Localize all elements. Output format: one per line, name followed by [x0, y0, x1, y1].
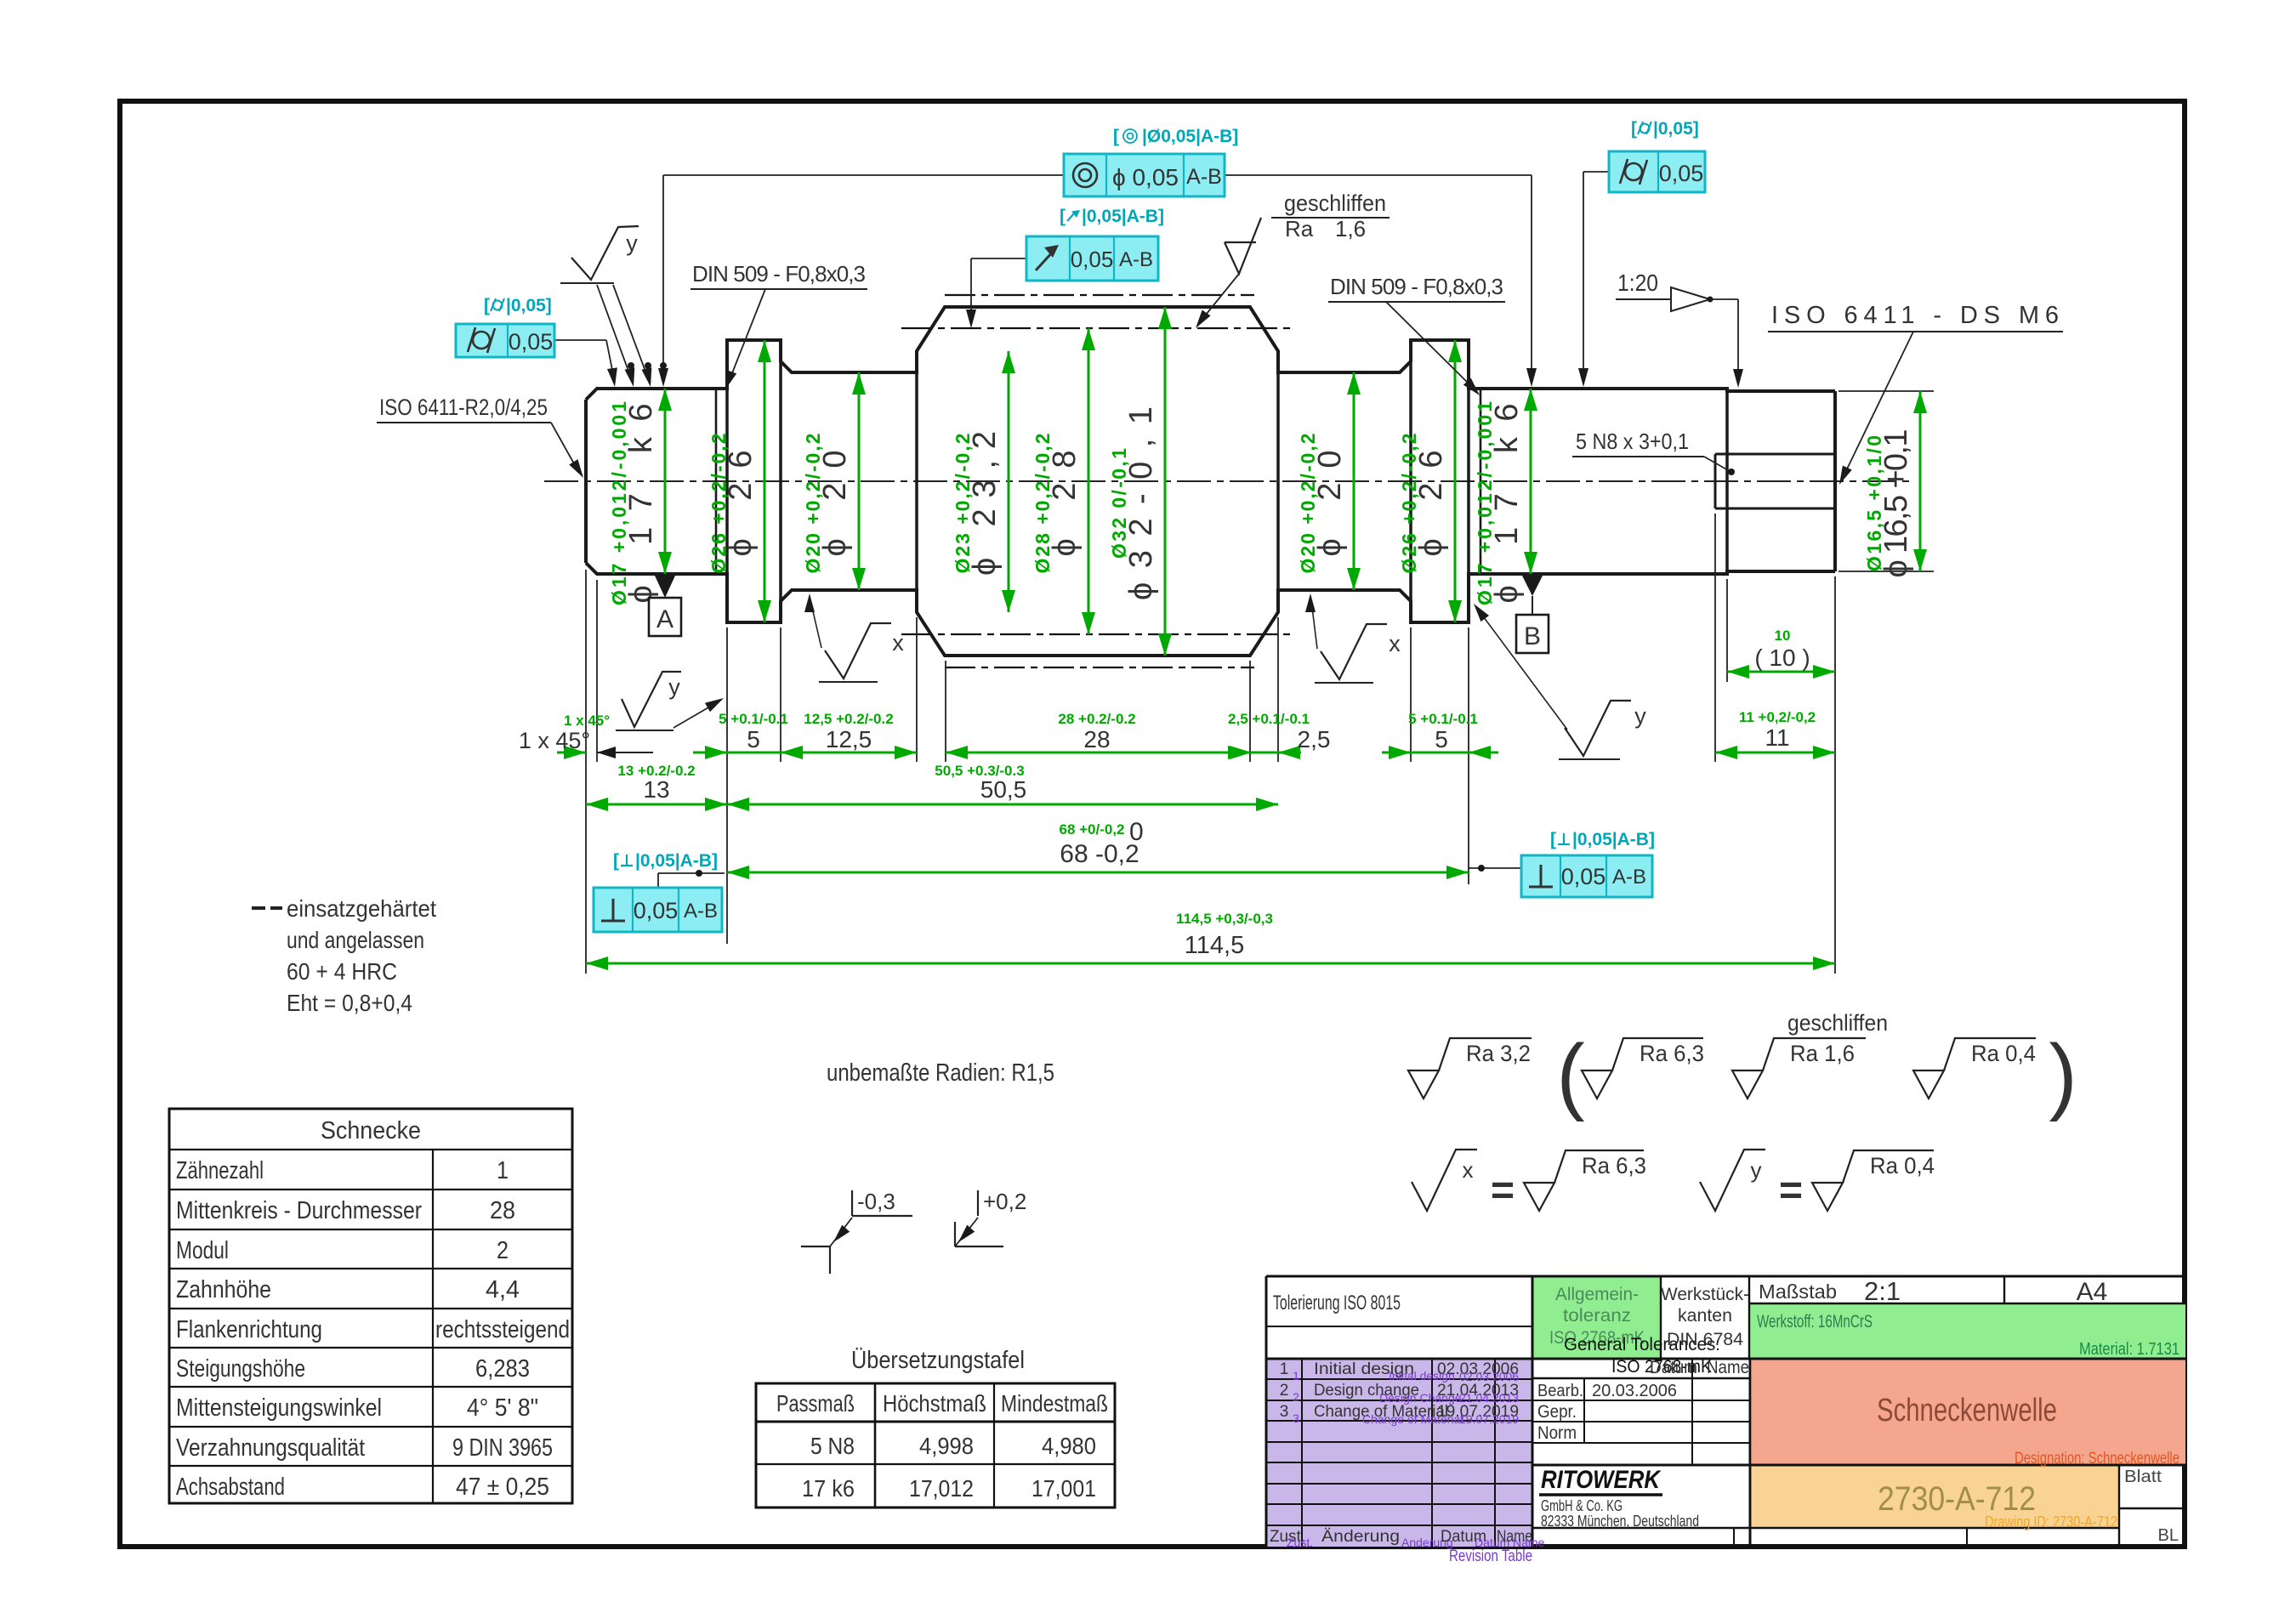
svg-text:114,5 +0,3/-0,3: 114,5 +0,3/-0,3	[1176, 911, 1273, 927]
svg-text:toleranz: toleranz	[1563, 1306, 1631, 1326]
right FCF leader	[1583, 171, 1609, 173]
diameter dimension O26 right collar	[1454, 340, 1457, 622]
svg-text:Mittenkreis - Durchmesser: Mittenkreis - Durchmesser	[176, 1197, 422, 1224]
svg-text:Norm: Norm	[1537, 1423, 1577, 1443]
svg-text:Ra: Ra	[1285, 216, 1314, 241]
svg-text:|0,05]: |0,05]	[506, 296, 552, 315]
svg-text:12,5 +0.2/-0.2: 12,5 +0.2/-0.2	[804, 711, 893, 727]
svg-text:4° 5' 8": 4° 5' 8"	[467, 1394, 538, 1422]
note einsatzgehaertet dashes	[252, 906, 265, 910]
svg-text:1:20: 1:20	[1617, 270, 1658, 296]
svg-text:5 N8: 5 N8	[810, 1433, 855, 1459]
dim 11	[1715, 752, 1835, 754]
x equals Ra 6,3	[1524, 1183, 1554, 1211]
dim (10) thread depth	[1727, 671, 1835, 673]
extension line chamfer x702	[596, 580, 598, 762]
svg-text:28: 28	[490, 1197, 515, 1224]
dim 12.5	[781, 752, 917, 754]
title block green cell Allgemeintoleranz	[1533, 1276, 1661, 1359]
svg-text:A-B: A-B	[684, 900, 718, 923]
svg-text:Ra 0,4: Ra 0,4	[1971, 1041, 2036, 1066]
svg-text:|0,05|A-B]: |0,05|A-B]	[1082, 207, 1164, 226]
keyway left end	[1714, 454, 1717, 508]
svg-text:2,5: 2,5	[1298, 726, 1331, 752]
svg-text:12,5: 12,5	[826, 726, 872, 752]
svg-text:20.03.2006: 20.03.2006	[1592, 1382, 1677, 1400]
svg-text:Ø28 +0,2/-0,2: Ø28 +0,2/-0,2	[1031, 434, 1054, 574]
runout leader line A-B	[663, 174, 1532, 176]
svg-text:10: 10	[1775, 627, 1791, 644]
svg-text:5 N8 x 3+0,1: 5 N8 x 3+0,1	[1576, 429, 1689, 454]
svg-text:BL: BL	[2158, 1526, 2179, 1545]
FCF circular runout right journal	[1609, 151, 1705, 192]
surface y leader arrows top left	[597, 285, 633, 383]
svg-text:17,012: 17,012	[909, 1475, 974, 1502]
title block green band Werkstoff	[1749, 1303, 2185, 1359]
extension line x1727	[1468, 627, 1469, 884]
svg-text:y: y	[1751, 1157, 1762, 1183]
svg-text:Werkstück-: Werkstück-	[1661, 1285, 1749, 1304]
svg-text:Ø32 0/-0,1: Ø32 0/-0,1	[1108, 448, 1130, 559]
svg-text:Allgemein-: Allgemein-	[1555, 1285, 1639, 1304]
surface symbol y left lower	[616, 730, 673, 731]
Ra 3,2 symbol	[1408, 1070, 1439, 1099]
svg-text:Mittensteigungswinkel: Mittensteigungswinkel	[176, 1394, 382, 1422]
keyway top line	[1715, 453, 1835, 456]
svg-text:[: [	[1550, 830, 1556, 849]
shaft left end face	[584, 400, 588, 563]
svg-text:Ø20 +0,2/-0,2: Ø20 +0,2/-0,2	[1297, 434, 1319, 574]
extension line x855	[726, 627, 728, 944]
svg-text:4,998: 4,998	[919, 1433, 974, 1459]
diameter dimension O23.2 worm root	[1008, 351, 1010, 612]
svg-text:19.07.2019: 19.07.2019	[1459, 1412, 1519, 1426]
svg-text:Ø23 +0,2/-0,2: Ø23 +0,2/-0,2	[952, 434, 974, 574]
svg-text:2: 2	[1280, 1382, 1289, 1400]
diameter dimension O17 left	[664, 389, 667, 574]
svg-text:Achsabstand: Achsabstand	[176, 1474, 285, 1501]
extension line x2158	[1834, 576, 1836, 974]
svg-text:1: 1	[1293, 1369, 1299, 1383]
svg-text:|0,05]: |0,05]	[1653, 119, 1699, 139]
svg-text:Ø16,5 +0,1/0: Ø16,5 +0,1/0	[1863, 435, 1885, 571]
Ra 6,3 symbol	[1582, 1070, 1612, 1099]
svg-text:|0,05|A-B]: |0,05|A-B]	[1572, 830, 1655, 849]
diameter dimension O17 right	[1530, 389, 1532, 574]
svg-text:Schneckenwelle: Schneckenwelle	[1877, 1393, 2057, 1428]
svg-text:1 x 45°: 1 x 45°	[564, 713, 610, 729]
svg-text:0,05: 0,05	[634, 898, 679, 923]
svg-text:[: [	[613, 851, 619, 871]
DIN509 relief line left journal	[715, 389, 718, 574]
worm lower aux dash-dot line	[945, 667, 1254, 668]
svg-text:Revision Table: Revision Table	[1449, 1547, 1532, 1565]
svg-text:geschliffen: geschliffen	[1787, 1010, 1888, 1036]
datum B symbol	[1522, 576, 1543, 596]
svg-text:5 +0.1/-0.1: 5 +0.1/-0.1	[1408, 711, 1478, 727]
svg-text:Übersetzungstafel: Übersetzungstafel	[851, 1347, 1025, 1374]
svg-text:Ra 1,6: Ra 1,6	[1790, 1041, 1855, 1066]
extension line x1503	[1277, 617, 1279, 762]
svg-text:|0,05|A-B]: |0,05|A-B]	[635, 851, 718, 871]
left FCF leader	[554, 339, 606, 341]
FCF circular runout left journal	[456, 324, 554, 357]
svg-text:Werkstoff: 16MnCrS: Werkstoff: 16MnCrS	[1757, 1312, 1873, 1332]
worm upper aux dash-dot line	[945, 294, 1254, 296]
diameter dimension O16.5 end	[1919, 391, 1922, 571]
svg-text:Ra 3,2: Ra 3,2	[1466, 1041, 1531, 1066]
svg-text:Gepr.: Gepr.	[1537, 1402, 1577, 1422]
svg-text:Zust.: Zust.	[1287, 1536, 1313, 1549]
svg-text:[: [	[484, 296, 490, 315]
svg-text:Maßstab: Maßstab	[1759, 1280, 1837, 1303]
svg-text:Mindestmaß: Mindestmaß	[1001, 1390, 1108, 1417]
title block orange box	[1752, 1465, 2119, 1528]
svg-text:GmbH & Co. KG: GmbH & Co. KG	[1541, 1497, 1623, 1514]
svg-text:-0,3: -0,3	[857, 1189, 895, 1214]
svg-text:Datum: Datum	[1650, 1358, 1697, 1377]
diameter dimension O32 worm OD	[1164, 307, 1167, 656]
surface symbol y right lower	[1559, 758, 1620, 760]
svg-text:11 +0,2/-0,2: 11 +0,2/-0,2	[1739, 709, 1816, 725]
svg-text:RITOWERK: RITOWERK	[1541, 1466, 1662, 1494]
svg-text:0,05: 0,05	[1071, 247, 1114, 272]
svg-text:1: 1	[497, 1157, 509, 1184]
svg-text:einsatzgehärtet: einsatzgehärtet	[287, 895, 436, 922]
svg-text:rechtssteigend: rechtssteigend	[435, 1316, 570, 1343]
extension line x1659	[1410, 627, 1412, 762]
svg-text:y: y	[1634, 703, 1646, 729]
svg-text:Ø17 +0,012/-0,001: Ø17 +0,012/-0,001	[1474, 401, 1496, 605]
dim 5 left collar	[693, 752, 815, 754]
worm right face	[1276, 351, 1280, 612]
svg-text:5: 5	[747, 726, 760, 752]
revision table purple overlay	[1266, 1359, 1532, 1547]
chamfer dim 1x45 line	[557, 752, 586, 754]
svg-text:0,05: 0,05	[509, 329, 554, 355]
svg-text:ϕ 0,05: ϕ 0,05	[1112, 164, 1179, 190]
svg-text:68 +0/-0,2: 68 +0/-0,2	[1059, 821, 1124, 838]
revision table grid	[1266, 1378, 1532, 1380]
x equals symbol	[1412, 1150, 1477, 1211]
diameter dimension O28 worm pitch	[1088, 328, 1090, 634]
svg-text:DIN 509 - F0,8x0,3: DIN 509 - F0,8x0,3	[692, 261, 866, 287]
worm pitch line top (O28)	[901, 327, 1293, 329]
svg-text:47 ± 0,25: 47 ± 0,25	[456, 1474, 549, 1501]
svg-text:unbemaßte Radien: R1,5: unbemaßte Radien: R1,5	[827, 1059, 1054, 1087]
edge symbol +0,2	[955, 1246, 1003, 1247]
svg-text:1 x 45°: 1 x 45°	[519, 728, 590, 753]
svg-text:Zähnezahl: Zähnezahl	[176, 1157, 264, 1184]
runout leader left vertical	[662, 175, 664, 381]
svg-text:Eht = 0,8+0,4: Eht = 0,8+0,4	[287, 990, 412, 1016]
svg-text:geschliffen: geschliffen	[1284, 190, 1386, 216]
DIN509 relief line right journal	[1480, 389, 1482, 574]
surface symbol x right	[1315, 682, 1373, 684]
svg-text:2: 2	[497, 1237, 509, 1264]
diameter dimension O26 left collar	[764, 340, 766, 622]
right collar left face	[1409, 340, 1412, 622]
svg-text:60 + 4 HRC: 60 + 4 HRC	[287, 958, 397, 985]
dim 13	[586, 803, 727, 806]
svg-text:Material: 1.7131: Material: 1.7131	[2079, 1340, 2179, 1359]
svg-text:Bearb.: Bearb.	[1537, 1382, 1583, 1400]
Ra 0,4 symbol	[1913, 1070, 1944, 1099]
svg-text:A: A	[656, 605, 673, 633]
svg-text:Ra 6,3: Ra 6,3	[1582, 1153, 1646, 1178]
svg-text:114,5: 114,5	[1185, 932, 1244, 959]
svg-text:5: 5	[1435, 726, 1448, 752]
svg-text:Ø26 +0,2/-0,2: Ø26 +0,2/-0,2	[1398, 434, 1420, 574]
svg-text:1: 1	[1280, 1360, 1289, 1378]
datum A symbol	[655, 576, 675, 598]
svg-text:Drawing ID: 2730-A-712: Drawing ID: 2730-A-712	[1985, 1513, 2117, 1530]
svg-text:=: =	[1491, 1168, 1515, 1213]
svg-text:2,5 +0.1/-0.1: 2,5 +0.1/-0.1	[1228, 711, 1310, 727]
svg-text:3: 3	[1280, 1403, 1289, 1421]
extension lines O16.5 dim	[1839, 390, 1934, 392]
dim 28 worm	[946, 752, 1250, 754]
svg-text:Ø26 +0,2/-0,2: Ø26 +0,2/-0,2	[708, 434, 730, 574]
svg-text:[: [	[1113, 127, 1119, 146]
svg-text:50,5: 50,5	[980, 776, 1027, 803]
diameter dimension O20 right	[1353, 372, 1355, 590]
Uebersetzungstafel grid	[756, 1383, 1115, 1508]
svg-text:0,05: 0,05	[1659, 161, 1704, 186]
edge symbol -0,3	[801, 1246, 830, 1247]
svg-text:Ra 6,3: Ra 6,3	[1640, 1041, 1704, 1066]
shaft centerline	[544, 480, 1915, 482]
svg-text:+0,2: +0,2	[983, 1189, 1026, 1214]
left collar left face	[725, 340, 729, 622]
svg-text:0: 0	[1129, 818, 1144, 846]
dim 68	[727, 872, 1469, 874]
svg-text:Ra 0,4: Ra 0,4	[1870, 1153, 1935, 1178]
svg-text:5 +0.1/-0.1: 5 +0.1/-0.1	[719, 711, 788, 727]
y equals symbol	[1700, 1150, 1765, 1211]
svg-text:y: y	[626, 230, 638, 256]
svg-text:Name: Name	[1707, 1358, 1749, 1377]
Schnecke table grid	[169, 1109, 572, 1503]
svg-text:A-B: A-B	[1119, 248, 1153, 271]
svg-text:13: 13	[643, 776, 669, 803]
shaft right end face	[1833, 391, 1837, 571]
extension line x2031	[1726, 579, 1728, 682]
svg-text:A-B: A-B	[1612, 866, 1646, 889]
worm left face	[915, 351, 918, 612]
svg-text:|Ø0,05|A-B]: |Ø0,05|A-B]	[1142, 127, 1238, 146]
svg-text:17,001: 17,001	[1031, 1475, 1096, 1502]
svg-text:[: [	[1631, 119, 1637, 139]
surface symbol x left	[819, 681, 878, 683]
svg-text:Blatt: Blatt	[2124, 1468, 2162, 1486]
svg-text:kanten: kanten	[1678, 1306, 1732, 1326]
dim 50.5	[727, 803, 1278, 806]
svg-text:28: 28	[1083, 726, 1110, 752]
dim 114.5	[586, 962, 1835, 965]
svg-text:y: y	[668, 674, 680, 700]
extension line x1112	[945, 661, 946, 762]
svg-text:Passmaß: Passmaß	[776, 1390, 855, 1417]
svg-text:A-B: A-B	[1186, 165, 1222, 189]
svg-text:4,4: 4,4	[486, 1276, 520, 1303]
svg-text:6,283: 6,283	[475, 1355, 530, 1383]
left collar right face	[779, 340, 782, 622]
svg-text:Steigungshöhe: Steigungshöhe	[176, 1355, 305, 1383]
svg-text:0,05: 0,05	[1561, 864, 1606, 889]
svg-text:9 DIN 3965: 9 DIN 3965	[452, 1434, 553, 1462]
svg-text:Änderung: Änderung	[1321, 1528, 1400, 1546]
svg-text:Zahnhöhe: Zahnhöhe	[176, 1276, 271, 1303]
svg-text:und angelassen: und angelassen	[287, 927, 424, 953]
extension line x1470	[1249, 661, 1251, 762]
svg-text:68 -0,2: 68 -0,2	[1060, 840, 1139, 868]
svg-text:17 k6: 17 k6	[802, 1475, 855, 1502]
svg-text:11: 11	[1765, 724, 1789, 751]
svg-text:28 +0.2/-0.2: 28 +0.2/-0.2	[1058, 711, 1135, 727]
svg-text:B: B	[1524, 622, 1541, 650]
svg-text:ISO 6411-R2,0/4,25: ISO 6411-R2,0/4,25	[379, 395, 548, 420]
worm pitch line bottom (O28)	[901, 633, 1293, 635]
svg-text:A4: A4	[2077, 1278, 2108, 1306]
svg-text:Ø20 +0,2/-0,2: Ø20 +0,2/-0,2	[802, 434, 824, 574]
svg-text:Tolerierung ISO 8015: Tolerierung ISO 8015	[1273, 1292, 1401, 1315]
svg-text:3: 3	[1293, 1411, 1299, 1425]
svg-text:): )	[2049, 1027, 2077, 1122]
shaft outline top profile	[586, 307, 1835, 400]
y equals Ra 0,4	[1812, 1183, 1843, 1211]
svg-text:x: x	[892, 630, 904, 656]
diameter dimension O20 left	[858, 372, 861, 590]
title block salmon box	[1752, 1359, 2185, 1465]
surface symbol y top	[560, 282, 614, 284]
svg-text:Modul: Modul	[176, 1237, 229, 1264]
svg-text:2: 2	[1293, 1390, 1299, 1404]
svg-text:82333 München, Deutschland: 82333 München, Deutschland	[1541, 1513, 1699, 1530]
svg-text:Designation: Schneckenwelle: Designation: Schneckenwelle	[2015, 1450, 2179, 1468]
runout leader right vertical	[1531, 175, 1532, 381]
right collar right face	[1467, 340, 1470, 622]
extension line x2017	[1714, 514, 1716, 762]
svg-text:1,6: 1,6	[1335, 216, 1366, 241]
svg-text:4,980: 4,980	[1042, 1433, 1096, 1459]
FCF perpendicularity right	[1521, 855, 1652, 897]
step O17/O16.5 face	[1725, 389, 1729, 574]
FCF circular runout worm (arrow)	[1026, 236, 1158, 281]
dim 2.5	[1231, 752, 1301, 754]
svg-text:=: =	[1779, 1168, 1803, 1213]
svg-text:Höchstmaß: Höchstmaß	[883, 1390, 986, 1417]
svg-text:(: (	[1556, 1027, 1584, 1122]
svg-text:DIN 6784: DIN 6784	[1667, 1330, 1743, 1349]
svg-text:x: x	[1389, 631, 1401, 656]
FCF perpendicularity left	[594, 888, 722, 932]
dim 5 right collar	[1382, 752, 1498, 754]
svg-text:2730-A-712: 2730-A-712	[1878, 1480, 2036, 1518]
FCF concentricity A-B	[1064, 154, 1225, 196]
extension line x918	[780, 627, 781, 762]
svg-text:Schnecke: Schnecke	[321, 1117, 421, 1144]
keyway bottom line	[1715, 508, 1835, 510]
projection FCF leader	[971, 258, 1026, 259]
shaft outline bottom profile	[586, 563, 1835, 656]
extension line x1078	[916, 617, 918, 762]
extension line left face x689	[585, 570, 587, 974]
svg-text:2:1: 2:1	[1864, 1276, 1901, 1306]
svg-text:( 10 ): ( 10 )	[1754, 644, 1810, 671]
title block grid lines	[1266, 1275, 2185, 1278]
svg-text:Verzahnungsqualität: Verzahnungsqualität	[176, 1434, 365, 1462]
svg-text:Flankenrichtung: Flankenrichtung	[176, 1316, 322, 1343]
svg-text:DIN 509 - F0,8x0,3: DIN 509 - F0,8x0,3	[1330, 274, 1503, 299]
svg-text:x: x	[1463, 1157, 1474, 1183]
FCF perpendicularity right leader	[1469, 867, 1521, 869]
svg-text:Ø17 +0,012/-0,001: Ø17 +0,012/-0,001	[608, 401, 630, 605]
FCF perpendicularity left leader	[657, 873, 659, 888]
svg-text:[: [	[1060, 207, 1066, 226]
